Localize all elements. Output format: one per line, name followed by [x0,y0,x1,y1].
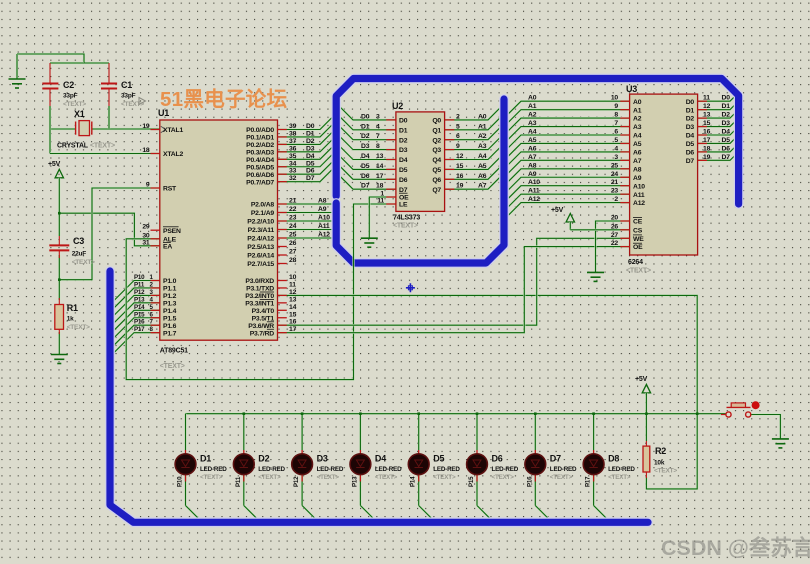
svg-text:P11: P11 [235,476,242,487]
svg-text:37: 37 [289,138,297,145]
svg-text:<TEXT>: <TEXT> [608,474,631,481]
svg-text:22: 22 [289,206,297,213]
wire 74LS373 Q3 (A3) to 6264 A3 [445,127,630,150]
pin 5 U2 Q1 [432,123,486,134]
svg-text:XTAL2: XTAL2 [163,151,183,158]
svg-text:D3: D3 [361,143,370,150]
wire: XTAL2 net (crystal to U1 pin18) [50,129,160,154]
bus: data bus loop bottom (left gap to right edge) [336,99,504,263]
pin 24 U1 P2.3/A11 [248,223,297,234]
LED D3 [292,450,344,487]
svg-text:24: 24 [289,223,297,230]
svg-text:2: 2 [456,113,460,120]
svg-text:D4: D4 [306,153,315,160]
svg-text:Q6: Q6 [432,177,441,184]
svg-text:A12: A12 [318,232,330,239]
push button (INT0) [721,401,760,417]
svg-text:<TEXT>: <TEXT> [121,101,144,108]
svg-text:<TEXT>: <TEXT> [433,474,456,481]
svg-text:X1: X1 [74,109,85,119]
svg-text:D7: D7 [361,183,370,190]
node A10 (U1 side) [318,215,330,222]
wire: P3.6/WR to U3 WE [278,238,630,325]
svg-text:C2: C2 [63,80,74,90]
svg-text:D7: D7 [686,158,695,165]
svg-text:D6: D6 [306,168,315,175]
svg-text:D1: D1 [686,107,695,114]
svg-text:A11: A11 [528,188,540,195]
pin 14 U1 P3.4/T0 [252,304,297,315]
svg-text:A7: A7 [633,158,642,165]
svg-text:P3.2/INT0: P3.2/INT0 [245,293,274,300]
wire LED D5 column [419,414,436,522]
svg-text:P12: P12 [134,289,145,296]
svg-text:4: 4 [614,145,618,152]
svg-text:U3: U3 [626,84,637,94]
svg-text:D7: D7 [550,454,561,464]
pin 22 U3 OE [611,240,643,251]
svg-text:D0: D0 [686,99,695,106]
svg-text:A10: A10 [528,179,540,186]
svg-text:9: 9 [614,103,618,110]
svg-text:D4: D4 [722,129,731,136]
svg-text:29: 29 [142,224,150,231]
svg-text:A0: A0 [528,95,537,102]
svg-text:P2.1/A9: P2.1/A9 [251,210,275,217]
pin 8 U2 D3 [361,143,408,154]
wire 6264 D5 to bus [698,136,737,143]
wire bus to 6264 A10 [505,186,630,202]
pin 35 U1 P0.4/AD4 [246,153,296,164]
svg-text:<TEXT>: <TEXT> [654,468,677,475]
pin 4 U1 P1.3 [134,296,177,307]
svg-text:D2: D2 [258,454,269,464]
svg-text:11: 11 [289,281,296,288]
svg-text:P1.4: P1.4 [163,308,177,315]
svg-text:17: 17 [289,326,297,333]
svg-text:13: 13 [289,296,297,303]
pin 39 U1 P0.0/AD0 [246,123,296,134]
svg-text:P1.3: P1.3 [163,300,177,307]
pin 19 U2 Q7 [432,183,486,194]
LED D1 [175,450,227,487]
svg-text:P14: P14 [410,476,417,487]
pin 9 U2 Q3 [432,143,486,154]
svg-text:A1: A1 [528,103,537,110]
svg-text:Q5: Q5 [432,167,441,174]
LED D7 [525,450,577,487]
svg-text:6: 6 [456,133,460,140]
svg-text:A9: A9 [318,206,327,213]
wire 74LS373 Q7 (A7) to 6264 A7 [445,160,630,189]
svg-text:AT89C51: AT89C51 [160,348,188,355]
svg-text:A1: A1 [478,123,487,130]
svg-text:21: 21 [611,179,619,186]
pin 37 U1 P0.2/AD2 [246,138,296,149]
bus: P1/LED bus (left vertical + bottom) [110,271,648,522]
node D4 (U1 side) [306,153,315,160]
svg-text:CSDN @叁苏言: CSDN @叁苏言 [661,535,810,560]
svg-text:D3: D3 [686,124,695,131]
svg-text:R1: R1 [67,303,78,313]
wire LED D8 column [594,414,611,522]
pin 11 U1 P3.1/TXD [246,281,296,292]
+5V power symbol (reset circuit) [48,161,64,236]
svg-text:XTAL1: XTAL1 [163,127,183,134]
svg-text:P1.2: P1.2 [163,293,177,300]
svg-text:A3: A3 [528,120,537,127]
svg-text:P15: P15 [468,476,475,487]
svg-text:LED-RED: LED-RED [492,466,519,473]
svg-text:P2.5/A13: P2.5/A13 [247,244,274,251]
pin 21 U1 P2.0/A8 [251,198,297,209]
svg-text:D3: D3 [722,120,731,127]
pin 28 U1 P2.7/A15 [247,257,296,268]
svg-text:D4: D4 [375,454,386,464]
svg-text:P3.3/INT1: P3.3/INT1 [245,300,274,307]
svg-text:P3.1/TXD: P3.1/TXD [246,286,274,293]
svg-text:<TEXT>: <TEXT> [200,474,223,481]
svg-text:A4: A4 [633,133,642,140]
svg-text:1: 1 [380,191,384,198]
svg-text:P2.6/A14: P2.6/A14 [247,253,274,260]
pin 2 U3 A12 [528,196,645,207]
svg-text:P2.2/A10: P2.2/A10 [247,219,274,226]
pin 15 U1 P3.5/T1 [252,311,297,322]
pin 12 U1 P3.2/INT0 [245,289,296,300]
pin 7 U3 A3 [528,120,642,131]
node: wire junctions [58,212,699,415]
node D0 (U1 side) [306,123,315,130]
svg-text:LED-RED: LED-RED [433,466,460,473]
wire: P3.7/RD to U3 OE [278,247,630,333]
svg-text:28: 28 [289,257,297,264]
pin 3 U3 A7 [528,154,642,165]
pin 17 U3 D5 [686,137,731,148]
wire 6264 D7 to bus [698,153,737,160]
svg-text:25: 25 [611,162,619,169]
svg-text:D0: D0 [722,95,731,102]
wire LED D2 column [244,414,260,522]
svg-text:<TEXT>: <TEXT> [550,474,573,481]
svg-text:35: 35 [289,153,297,160]
svg-text:14: 14 [289,304,297,311]
svg-text:P10: P10 [134,274,145,281]
op-amp U3 (6264 RAM) body [626,84,698,275]
svg-text:3: 3 [376,113,380,120]
svg-text:15: 15 [703,120,711,127]
svg-text:A3: A3 [478,143,487,150]
wire P0.6 to 74LS373 D6 [278,158,396,180]
pin 2 U2 Q0 [432,113,486,124]
svg-text:WE: WE [633,236,644,243]
capacitor C1 [101,63,144,129]
svg-text:6: 6 [614,129,618,136]
svg-text:<TEXT>: <TEXT> [393,223,418,230]
wire: 6264 CE to ground [596,221,630,272]
wire P2.1 (A9) to bus [278,211,337,213]
svg-text:D1: D1 [306,130,315,137]
svg-text:D5: D5 [399,167,408,174]
svg-text:15: 15 [456,163,464,170]
svg-text:33pF: 33pF [63,93,78,100]
ground (button) [772,439,789,448]
svg-text:11: 11 [377,198,384,205]
wire: +5V to EA [59,213,160,246]
svg-text:A8: A8 [528,162,537,169]
svg-text:19: 19 [703,154,711,161]
svg-text:10: 10 [289,274,297,281]
svg-text:P1.1: P1.1 [163,286,177,293]
svg-text:OE: OE [399,195,409,202]
wire 74LS373 Q2 (A2) to 6264 A2 [445,118,630,140]
pin 10 U1 P3.0/RXD [245,274,296,285]
node D5 (U1 side) [306,160,315,167]
svg-text:P0.6/AD6: P0.6/AD6 [246,172,274,179]
svg-text:P0.7/AD7: P0.7/AD7 [246,179,274,186]
pin 5 U1 P1.4 [134,304,177,315]
pin 25 U1 P2.4/A12 [247,232,296,243]
node D7 (U1 side) [306,175,315,182]
svg-text:LED-RED: LED-RED [200,466,227,473]
svg-text:39: 39 [289,123,297,130]
svg-text:D2: D2 [722,112,731,119]
svg-text:D2: D2 [399,137,408,144]
wire 6264 D4 to bus [698,128,737,135]
svg-text:A2: A2 [478,133,487,140]
svg-text:P14: P14 [134,304,145,311]
svg-text:P11: P11 [134,281,145,288]
svg-text:D7: D7 [399,187,408,194]
svg-text:12: 12 [703,103,711,110]
svg-text:<TEXT>: <TEXT> [317,474,340,481]
LED D6 [467,450,519,487]
node A11 (U1 side) [318,223,330,230]
pin 12 U2 Q4 [432,153,486,164]
svg-text:Q4: Q4 [432,157,441,164]
wire: U2 OE to ground [369,197,396,238]
svg-text:LE: LE [399,202,408,209]
pin 14 U2 D5 [361,163,408,174]
svg-text:<TEXT>: <TEXT> [67,324,90,331]
svg-text:A1: A1 [633,107,642,114]
svg-text:P16: P16 [134,319,145,326]
wire P1.6 to LED bus [111,325,160,349]
svg-text:16: 16 [703,129,711,136]
node A12 (U1 side) [318,232,330,239]
node: blue origin marker [406,283,415,292]
svg-text:<TEXT>: <TEXT> [90,143,115,150]
svg-text:P3.5/T1: P3.5/T1 [252,315,275,322]
pin 23 U3 A11 [528,188,645,199]
svg-text:19: 19 [142,123,150,130]
svg-text:A7: A7 [528,154,537,161]
svg-text:Q3: Q3 [432,147,441,154]
svg-text:6264: 6264 [628,259,643,266]
wire P0.0 to 74LS373 D0 [278,104,396,129]
LED D4 [350,450,402,487]
svg-text:D4: D4 [361,153,370,160]
wire P1.0 to LED bus [111,281,160,305]
pin 8 U1 P1.7 [134,326,177,337]
svg-text:P17: P17 [585,476,592,487]
pin 1 U1 P1.0 [134,274,177,285]
svg-text:<TEXT>: <TEXT> [258,474,281,481]
svg-text:+5V: +5V [48,161,61,168]
svg-text:A2: A2 [528,112,537,119]
wire bus to 6264 A11 [505,194,630,210]
pin 18 U2 D7 [361,183,408,194]
pin 7 U1 P1.6 [134,319,177,330]
svg-text:D0: D0 [361,113,370,120]
pin 8 U3 A2 [528,112,642,123]
crystal X1 [57,109,115,150]
svg-text:A5: A5 [633,141,642,148]
svg-text:LED-RED: LED-RED [375,466,402,473]
svg-text:A12: A12 [528,196,540,203]
svg-text:23: 23 [611,188,619,195]
svg-text:D3: D3 [399,147,408,154]
wire P0.7 to 74LS373 D7 [278,165,396,189]
bus: data bus loop top (around U2 to 6264) [336,79,738,205]
pin 2 U1 P1.1 [134,281,177,292]
svg-text:D2: D2 [361,133,370,140]
svg-text:PSEN: PSEN [163,228,181,235]
svg-text:RST: RST [163,186,177,193]
pin 21 U3 A10 [528,179,645,190]
svg-text:A0: A0 [478,113,487,120]
ground (6264 CE) [587,272,604,281]
svg-text:D5: D5 [361,163,370,170]
wire: RST net [59,188,160,280]
wire LED D1 column [186,414,203,522]
svg-text:A12: A12 [633,200,645,207]
svg-text:19: 19 [456,183,464,190]
svg-text:P2.3/A11: P2.3/A11 [248,227,275,234]
svg-text:3: 3 [614,154,618,161]
pin 30 U1 ALE [142,232,176,243]
svg-text:23: 23 [289,215,297,222]
wire P1.1 to LED bus [111,288,160,312]
svg-text:27: 27 [611,232,619,239]
wire P1.2 to LED bus [111,295,160,319]
pin 12 U3 D1 [686,103,731,114]
pin 9 U1 RST [146,182,177,193]
svg-text:A6: A6 [478,173,487,180]
ground (top-left) [9,54,26,88]
pin 33 U1 P0.6/AD6 [246,168,296,179]
wire: button right to ground [751,415,781,439]
svg-text:26: 26 [611,223,619,230]
svg-text:22: 22 [611,240,619,247]
svg-text:7: 7 [614,120,618,127]
svg-text:<TEXT>: <TEXT> [63,101,86,108]
svg-text:P0.5/AD5: P0.5/AD5 [246,164,274,171]
svg-text:C1: C1 [121,80,132,90]
wire: ground to C2/C1 top net [17,54,109,63]
svg-text:<TEXT>: <TEXT> [160,363,185,370]
svg-text:A4: A4 [528,129,537,136]
svg-text:C3: C3 [73,236,84,246]
svg-text:A4: A4 [478,153,487,160]
svg-text:21: 21 [289,198,297,205]
svg-text:12: 12 [456,153,464,160]
svg-text:P0.2/AD2: P0.2/AD2 [246,142,274,149]
svg-text:13: 13 [703,112,711,119]
svg-text:D3: D3 [306,145,315,152]
svg-text:D6: D6 [722,145,731,152]
svg-text:2: 2 [614,196,618,203]
svg-text:20: 20 [611,215,619,222]
svg-text:D6: D6 [492,454,503,464]
wire P1.3 to LED bus [111,303,160,327]
svg-text:D2: D2 [686,116,695,123]
pin 17 U2 D6 [361,173,408,184]
wire P2.0 (A8) to bus [278,203,337,205]
node D6 (U1 side) [306,168,315,175]
pin 3 U1 P1.2 [134,289,177,300]
wire 6264 D6 to bus [698,145,737,152]
svg-text:10k: 10k [654,460,665,467]
svg-text:A2: A2 [633,116,642,123]
wire LED D4 column [360,414,377,522]
svg-text:D1: D1 [200,454,211,464]
svg-text:18: 18 [142,147,150,154]
pin 36 U1 P0.3/AD3 [246,145,296,156]
svg-text:A0: A0 [633,99,642,106]
wire 74LS373 Q0 (A0) to 6264 A0 [445,101,630,120]
wire bus to 6264 A8 [505,169,630,185]
wire P2.4 (A12) to bus [278,237,337,239]
svg-text:A10: A10 [633,183,645,190]
capacitor C2 [42,63,86,129]
wire: C3 bottom to R1 top [58,255,60,300]
svg-text:A11: A11 [318,223,330,230]
svg-text:Q0: Q0 [432,118,441,125]
pin 9 U3 A1 [528,103,642,114]
transistor U2 (74LS373 latch) body [392,101,445,230]
svg-text:P0.0/AD0: P0.0/AD0 [246,127,274,134]
wire: R2 bottom to button node [646,414,697,489]
svg-text:A3: A3 [633,124,642,131]
svg-text:5: 5 [614,137,618,144]
wire: +5V to 6264 CS [570,229,629,231]
svg-text:4: 4 [376,123,380,130]
wire P0.4 to 74LS373 D4 [278,143,396,160]
pin 16 U2 Q6 [432,173,486,184]
svg-text:P1.6: P1.6 [163,323,177,330]
svg-text:Q2: Q2 [432,137,441,144]
wire 74LS373 Q5 (A5) to 6264 A5 [445,143,630,169]
wire P0.1 to 74LS373 D1 [278,114,396,137]
svg-text:D6: D6 [361,173,370,180]
svg-text:R2: R2 [655,446,666,456]
svg-text:9: 9 [146,182,150,189]
wire LED D7 column [535,414,552,522]
svg-text:D5: D5 [686,141,695,148]
wire 6264 D0 to bus [698,94,737,101]
svg-text:33: 33 [289,168,297,175]
pin 20 U3 CE [611,215,643,226]
svg-text:D6: D6 [399,177,408,184]
svg-text:P0.3/AD3: P0.3/AD3 [246,149,274,156]
pin 6 U1 P1.5 [134,311,177,322]
svg-text:D1: D1 [361,123,370,130]
pin 11 U3 D0 [686,95,731,106]
ground (below R1) [51,355,68,364]
pin 15 U3 D3 [686,120,731,131]
node A8 (U1 side) [318,198,327,205]
